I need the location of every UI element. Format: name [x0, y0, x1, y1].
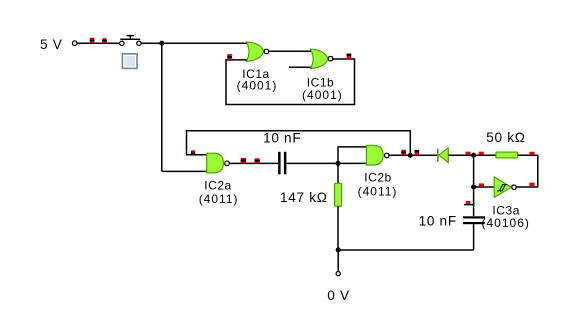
wire junction to IC1a input [162, 42, 249, 44]
wire 5V to switch [77, 42, 120, 44]
resistor R2 50k [496, 152, 518, 158]
pin marker [241, 158, 246, 164]
wire diode to junction D [448, 154, 496, 156]
svg-text:50 kΩ: 50 kΩ [486, 130, 525, 145]
button pad [122, 53, 138, 69]
wire junction E to inverter input [474, 186, 495, 188]
pin marker [227, 54, 232, 60]
junction B [335, 161, 340, 166]
wire junction down [161, 43, 163, 171]
wire to 0V terminal [337, 250, 339, 271]
wire capacitor to junction B [286, 162, 367, 164]
junction A [159, 41, 164, 46]
wire switch to junction [141, 42, 162, 44]
svg-text:(4011): (4011) [199, 192, 239, 206]
pin marker [102, 38, 106, 43]
wire resistor to bottom junction [337, 206, 339, 250]
svg-text:147 kΩ: 147 kΩ [280, 190, 328, 205]
junction E [471, 184, 476, 189]
wire capacitor down [473, 224, 475, 250]
inverter IC3a schmitt [494, 177, 516, 198]
junction C [408, 153, 413, 158]
svg-text:(4001): (4001) [237, 78, 278, 92]
pin marker [415, 150, 420, 155]
wire feedback box IC1 [226, 59, 355, 105]
NOR gate IC1a [246, 42, 268, 61]
wire stub IC1b lower input [289, 66, 312, 68]
push switch SW1 [120, 36, 141, 46]
terminal 0V [336, 272, 340, 276]
pin marker [255, 158, 260, 163]
svg-text:IC2b: IC2b [364, 171, 392, 185]
NOR gate IC1b [311, 49, 333, 68]
svg-text:5 V: 5 V [40, 37, 63, 52]
capacitor C1 10nF plates [278, 152, 286, 175]
wire IC2a out to capacitor [229, 162, 278, 164]
svg-text:(40106): (40106) [482, 216, 530, 230]
pin marker [191, 150, 195, 155]
svg-text:0 V: 0 V [327, 288, 350, 303]
pin marker [347, 54, 352, 60]
wire bottom rail [338, 249, 474, 251]
pin marker [479, 152, 484, 155]
wire 10nF feedback loop [187, 131, 411, 156]
pin marker [529, 183, 534, 186]
pin marker [90, 38, 95, 44]
wire IC1a out to IC1b in [269, 50, 312, 52]
pin marker [479, 183, 484, 186]
wire junction E down to capacitor [473, 187, 475, 216]
terminal 5V [72, 41, 77, 46]
svg-text:10 nF: 10 nF [419, 213, 457, 228]
wire to IC2a lower input [162, 170, 208, 172]
svg-text:IC2a: IC2a [204, 179, 232, 193]
wire junction B down to resistor [337, 163, 339, 183]
wire inverter out to corner [516, 186, 538, 188]
wire resistor 50k to corner [518, 155, 538, 187]
pin marker [401, 150, 406, 156]
capacitor C2 10nF [463, 201, 485, 224]
pin marker [466, 152, 471, 155]
NAND gate IC2a [207, 153, 230, 173]
resistor R1 147k [335, 183, 342, 206]
junction D [471, 153, 476, 158]
svg-text:10 nF: 10 nF [263, 130, 301, 145]
wire junction B up to IC2b top input [338, 147, 367, 164]
pin marker [529, 152, 534, 155]
diode D1 [438, 148, 449, 163]
wire IC2b out to diode [389, 154, 437, 156]
junction F [336, 247, 341, 252]
NAND gate IC2b [366, 145, 389, 165]
svg-text:(4011): (4011) [358, 184, 398, 198]
wire junction D down to junction E [473, 155, 475, 187]
svg-text:(4001): (4001) [302, 88, 343, 102]
